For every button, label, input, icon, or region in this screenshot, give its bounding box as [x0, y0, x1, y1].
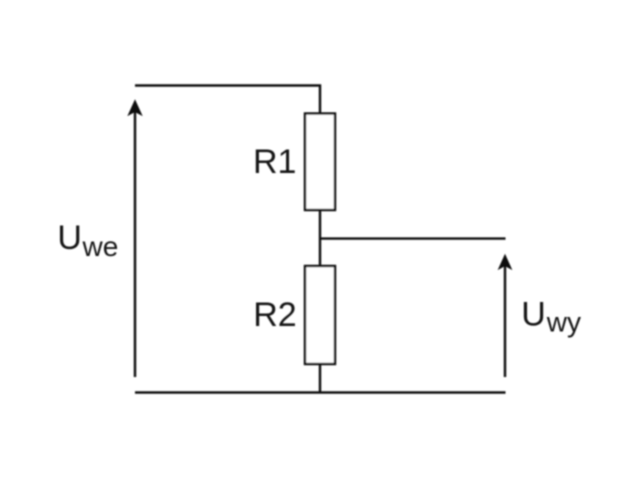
resistor R1 [305, 114, 335, 211]
arrow Uwy (output voltage, right side, pointing up) [499, 255, 512, 377]
wire top: input top rail from left end to divider top corner [135, 86, 320, 115]
svg-text:U: U [521, 296, 546, 334]
label Uwe [57, 219, 118, 262]
label Uwy [521, 296, 581, 338]
svg-text:we: we [82, 231, 119, 262]
svg-text:R2: R2 [253, 296, 296, 334]
wire: middle tap going right to output [320, 237, 506, 239]
wire: R1 bottom to R2 top through middle node [319, 210, 321, 266]
arrow Uwe (input voltage, left side, pointing up) [128, 101, 141, 378]
svg-text:wy: wy [546, 307, 581, 338]
wire: R2 bottom to bottom rail [319, 364, 321, 392]
resistor R2 [305, 266, 335, 364]
wire bottom rail [135, 391, 506, 393]
svg-text:U: U [57, 219, 82, 257]
svg-text:R1: R1 [253, 143, 296, 181]
